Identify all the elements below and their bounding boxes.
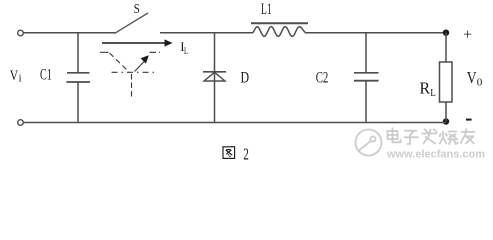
svg-text:C2: C2 — [316, 70, 329, 87]
node output top junction — [443, 30, 449, 36]
inductor L1 winding — [252, 27, 307, 37]
watermark logo — [356, 130, 382, 156]
svg-text:L1: L1 — [261, 1, 272, 18]
wire top rail right — [307, 32, 447, 34]
caption 图 2 — [223, 147, 235, 159]
diode D — [214, 33, 216, 123]
wire top rail mid — [160, 32, 253, 34]
wire bottom rail — [24, 122, 447, 124]
svg-text:0: 0 — [477, 77, 483, 89]
transistor Q1 (dashed equivalent of switch) — [100, 52, 160, 97]
capacitor C2 — [365, 33, 367, 73]
svg-text:2: 2 — [243, 145, 249, 164]
node IL arrow — [102, 42, 167, 44]
watermark text — [388, 128, 475, 144]
capacitor C1 — [77, 33, 79, 73]
label - — [466, 119, 472, 121]
svg-text:V: V — [10, 68, 19, 84]
char dian — [388, 131, 398, 139]
char fa — [425, 129, 429, 132]
svg-text:i: i — [19, 74, 22, 85]
wire top rail left — [24, 32, 116, 34]
svg-text:L: L — [184, 47, 188, 57]
svg-text:R: R — [420, 79, 431, 98]
switch S — [115, 13, 149, 34]
char you — [462, 131, 475, 133]
terminal input top — [18, 30, 24, 36]
svg-text:C1: C1 — [40, 67, 52, 84]
svg-text:D: D — [241, 69, 250, 86]
char shao — [442, 132, 444, 138]
node output bottom junction — [443, 118, 449, 124]
svg-text:V: V — [467, 68, 477, 87]
svg-text:L: L — [430, 87, 436, 99]
resistor RL — [445, 33, 447, 62]
svg-text:www.elecfans.com: www.elecfans.com — [386, 149, 485, 161]
svg-text:+: + — [463, 26, 472, 43]
svg-text:S: S — [134, 2, 140, 17]
char zi — [405, 130, 417, 132]
inductor L1 core bar — [251, 22, 308, 24]
terminal input bottom — [18, 120, 24, 126]
